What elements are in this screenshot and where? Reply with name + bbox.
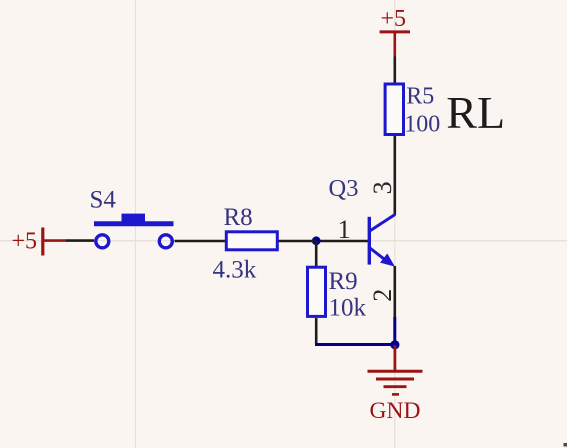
wire +5 to S4 xyxy=(66,239,94,242)
switch S4 xyxy=(90,187,174,248)
corner mark xyxy=(564,443,567,447)
svg-text:2: 2 xyxy=(368,289,397,302)
svg-text:GND: GND xyxy=(370,398,421,424)
junction node emitter xyxy=(390,340,399,349)
resistor R8 xyxy=(213,204,278,284)
wire base xyxy=(316,240,368,243)
svg-text:10k: 10k xyxy=(329,295,367,322)
svg-text:+5: +5 xyxy=(381,6,407,32)
wire +5 to R5 xyxy=(393,57,396,84)
svg-text:RL: RL xyxy=(446,87,505,138)
wire R8 to node xyxy=(279,240,317,243)
wire R9 bottom xyxy=(315,318,318,345)
svg-text:100: 100 xyxy=(404,112,440,138)
svg-text:3: 3 xyxy=(368,181,397,194)
faint grid line vertical right xyxy=(394,0,396,448)
resistor R5 xyxy=(385,83,440,137)
ground xyxy=(368,345,423,424)
svg-text:R9: R9 xyxy=(329,268,358,295)
power +5 left xyxy=(12,228,67,256)
faint grid line horizontal xyxy=(0,240,567,242)
wire R5 to Q3 collector xyxy=(393,136,396,215)
svg-text:+5: +5 xyxy=(12,229,38,255)
wire S4 to R8 xyxy=(175,240,226,243)
power +5 top xyxy=(380,6,410,57)
junction node base xyxy=(312,236,321,245)
svg-text:R5: R5 xyxy=(406,83,434,109)
svg-text:4.3k: 4.3k xyxy=(213,257,257,284)
svg-text:S4: S4 xyxy=(90,187,117,214)
wire emitter black xyxy=(393,266,396,317)
wire node to R9 xyxy=(315,241,318,267)
wire emitter navy xyxy=(393,317,396,345)
resistor R9 xyxy=(308,267,367,321)
transistor Q3 xyxy=(329,175,396,267)
svg-text:Q3: Q3 xyxy=(329,175,359,202)
faint grid line vertical left xyxy=(135,0,137,448)
wire bottom horizontal xyxy=(315,343,395,346)
svg-text:R8: R8 xyxy=(224,204,253,231)
